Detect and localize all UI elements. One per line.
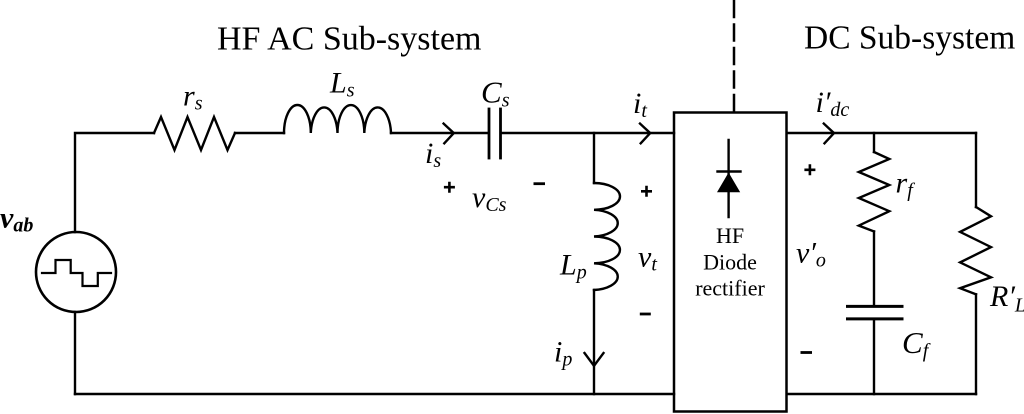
bottom wire left [75,393,674,395]
svg-text:ip: ip [554,336,572,371]
wire resistor to inductor [235,132,284,134]
inductor L_p humps (bulge right) [594,183,620,290]
minus v'_o [801,351,813,354]
svg-text:Lp: Lp [559,249,587,284]
svg-text:HF AC Sub-system: HF AC Sub-system [217,21,482,58]
svg-text:vt: vt [638,241,657,276]
svg-text:Ls: Ls [329,67,355,102]
resistor R_s zigzag [154,117,235,150]
resistor R'_L zigzag [960,207,991,294]
dashed line [733,1,736,112]
wire top-left from source to resistor [75,133,154,232]
rectifier box [674,113,787,412]
svg-text:Diode: Diode [703,250,757,275]
resistor r_f zigzag [859,152,890,231]
arrow i_p down [585,353,604,366]
svg-text:DC Sub-system: DC Sub-system [804,20,1015,57]
svg-text:rs: rs [183,80,203,115]
wire r_f to C_f [873,231,875,305]
arrow i'_dc [824,124,834,144]
source circle v_ab [36,232,116,312]
diode vertical line [727,140,729,217]
capacitor C_s plates [488,109,491,158]
arrow i_s [444,124,454,144]
square wave inside source [42,260,111,286]
svg-text:is: is [425,137,441,172]
svg-text:HF: HF [716,223,744,248]
wire box right to corner [787,132,976,134]
svg-text:rf: rf [896,167,916,202]
svg-text:vab: vab [0,202,33,237]
node branch Lp: wire down [593,133,595,183]
plus v'_o [804,164,815,175]
plus v_t [641,186,652,197]
inductor L_s humps [284,105,391,133]
wire Lp to bottom [593,290,595,394]
svg-text:i′dc: i′dc [816,86,850,121]
arrow i_t [640,124,650,144]
svg-text:v′o: v′o [796,237,826,272]
svg-text:Cs: Cs [481,75,510,112]
svg-text:it: it [633,87,647,122]
svg-text:Cf: Cf [902,325,931,362]
diode cathode bar [718,170,741,172]
wire C_f to bottom [873,320,875,394]
plus v_Cs [444,182,455,193]
svg-text:rectifier: rectifier [695,276,765,301]
minus v_Cs [534,182,546,185]
left branch below source [74,312,76,394]
right branch R'_L [975,133,977,207]
capacitor C_f plates [848,305,903,308]
svg-text:R′L: R′L [989,280,1024,317]
minus v_t [640,313,651,316]
wire R'_L to bottom [975,294,977,394]
bottom wire right [787,393,976,395]
branch r_f: down from top wire [873,133,875,152]
wire capacitor to box [502,132,675,134]
wire inductor to capacitor Cs [391,132,488,134]
diode triangle filled [717,173,740,193]
svg-text:vCs: vCs [472,181,507,216]
